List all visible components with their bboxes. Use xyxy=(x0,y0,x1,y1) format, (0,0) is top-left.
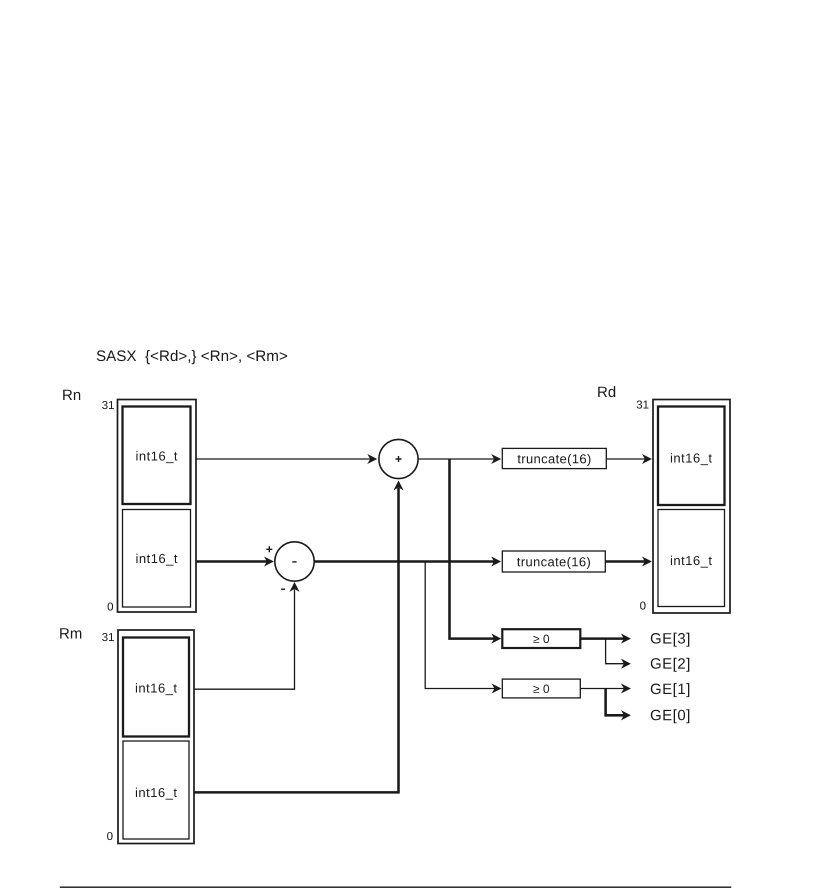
arrowhead into truncate lower xyxy=(491,556,501,566)
op-amp subtractor circle xyxy=(275,542,314,581)
ge-test lower box xyxy=(502,679,580,698)
adder plus sign xyxy=(396,456,402,462)
GE[3] label xyxy=(651,633,690,647)
wire truncate lower to Rd bottom (bold) xyxy=(605,560,645,563)
wire truncate upper to Rd top xyxy=(606,458,645,460)
wire Rn top cell to adder xyxy=(196,458,371,460)
arrowhead GE[0] xyxy=(621,710,631,720)
Rn bottom cell value int16_t xyxy=(136,554,177,566)
wire ge lower out to GE[1] xyxy=(580,688,624,690)
Rn bit 0 label xyxy=(108,603,114,611)
arrowhead GE[3] xyxy=(621,634,631,644)
wire Rm bottom cell up to adder bottom (bold) xyxy=(194,488,399,793)
wire adder branch down to GE[3:2] test (bold) xyxy=(450,459,495,639)
wire subtractor branch down to GE[1:0] test xyxy=(425,562,495,689)
truncate(16) lower box xyxy=(502,551,605,572)
wire ge upper out to GE[3] (bold) xyxy=(580,637,624,640)
register Rm top halfword cell xyxy=(123,638,189,737)
Rm bit 0 label xyxy=(107,832,113,840)
arrowhead into adder left xyxy=(367,454,377,464)
Rm bit 31 label xyxy=(102,633,114,641)
register Rn top halfword cell xyxy=(123,407,191,505)
register Rn label xyxy=(63,390,80,400)
GE[0] label xyxy=(651,709,690,723)
Rd bit 31 label xyxy=(637,401,649,409)
register Rn outer box xyxy=(118,400,197,613)
register Rn bottom halfword cell xyxy=(123,510,191,608)
subtractor plus input label xyxy=(266,546,272,552)
wire branch to GE[0] (bold) xyxy=(606,689,625,716)
ge-test upper label xyxy=(533,635,549,644)
arrowhead into truncate upper xyxy=(491,454,501,464)
arrowhead into Rd top cell xyxy=(642,454,652,464)
Rd top cell value int16_t xyxy=(671,453,712,465)
arrowhead GE[2] xyxy=(621,659,631,669)
arrowhead up into subtractor xyxy=(289,582,299,592)
Rm top cell value int16_t xyxy=(136,683,177,695)
op-amp adder circle xyxy=(379,439,418,478)
Rn top cell value int16_t xyxy=(136,451,177,463)
arrowhead into subtractor left xyxy=(264,556,274,566)
ge-test lower label xyxy=(533,685,549,694)
arrowhead GE[1] xyxy=(621,683,631,693)
wire Rn bottom cell to subtractor (bold) xyxy=(196,560,268,563)
footer rule xyxy=(60,887,732,888)
Rn bit 31 label xyxy=(102,401,114,409)
arrowhead into ge-test upper xyxy=(491,634,501,644)
wire branch to GE[2] xyxy=(606,639,625,664)
register Rm outer box xyxy=(118,630,194,844)
register Rm bottom halfword cell xyxy=(123,741,189,839)
subtractor minus input label xyxy=(281,588,285,590)
GE[2] label xyxy=(651,658,690,672)
truncate upper label xyxy=(518,454,591,466)
truncate lower label xyxy=(517,557,590,569)
arrowhead into ge-test lower xyxy=(492,683,502,693)
truncate(16) upper box xyxy=(502,448,606,468)
title SASX syntax xyxy=(97,350,287,364)
wire adder output to truncate(16) upper xyxy=(418,458,495,460)
subtractor minus sign xyxy=(292,561,296,563)
ge-test upper box (bold) xyxy=(502,629,580,648)
register Rd top halfword cell xyxy=(658,407,725,506)
GE[1] label xyxy=(651,683,690,697)
wire subtractor output to truncate(16) lower (bold) xyxy=(314,560,495,563)
Rm bottom cell value int16_t xyxy=(136,788,177,800)
register Rd bottom halfword cell xyxy=(658,510,725,607)
Rd bottom cell value int16_t xyxy=(671,556,712,568)
arrowhead into Rd bottom cell xyxy=(642,556,652,566)
Rd bit 0 label xyxy=(640,602,646,610)
register Rm label xyxy=(60,628,81,638)
arrowhead up into adder xyxy=(393,481,403,491)
register Rd outer box xyxy=(653,400,730,614)
wire Rm top cell up to subtractor bottom xyxy=(194,589,295,689)
register Rd label xyxy=(598,386,615,397)
